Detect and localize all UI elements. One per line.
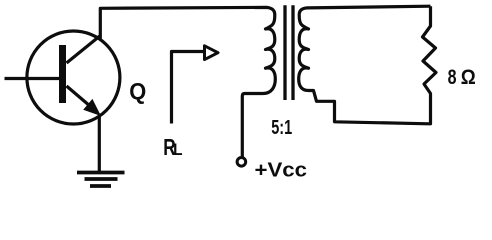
ground <box>77 173 125 187</box>
svg-text:Q: Q <box>129 78 146 104</box>
resistor RL 8 ohm zigzag <box>423 6 437 124</box>
transistor Q1 base bar <box>59 45 66 103</box>
emitter line <box>67 86 98 112</box>
RL arrow open head <box>205 46 219 60</box>
svg-text:5:1: 5:1 <box>271 116 292 139</box>
svg-text:8: 8 <box>448 65 457 89</box>
transformer T1 core <box>283 5 286 100</box>
svg-text:+Vcc: +Vcc <box>255 158 308 181</box>
wire: collector to top rail + top rail + transformer T1 primary winding + wire to +Vcc <box>100 7 275 156</box>
svg-text:L: L <box>173 141 182 159</box>
svg-text:Ω: Ω <box>461 65 476 89</box>
base wire <box>5 77 63 80</box>
transistor Q1 circle <box>27 31 120 124</box>
emitter wire to ground <box>98 114 101 172</box>
transformer T1 secondary winding, top wire to load <box>299 6 431 124</box>
RL arrow indicator <box>172 52 204 124</box>
emitter arrowhead <box>83 99 101 116</box>
collector line of Q <box>67 36 101 64</box>
+Vcc terminal circle <box>237 158 246 167</box>
